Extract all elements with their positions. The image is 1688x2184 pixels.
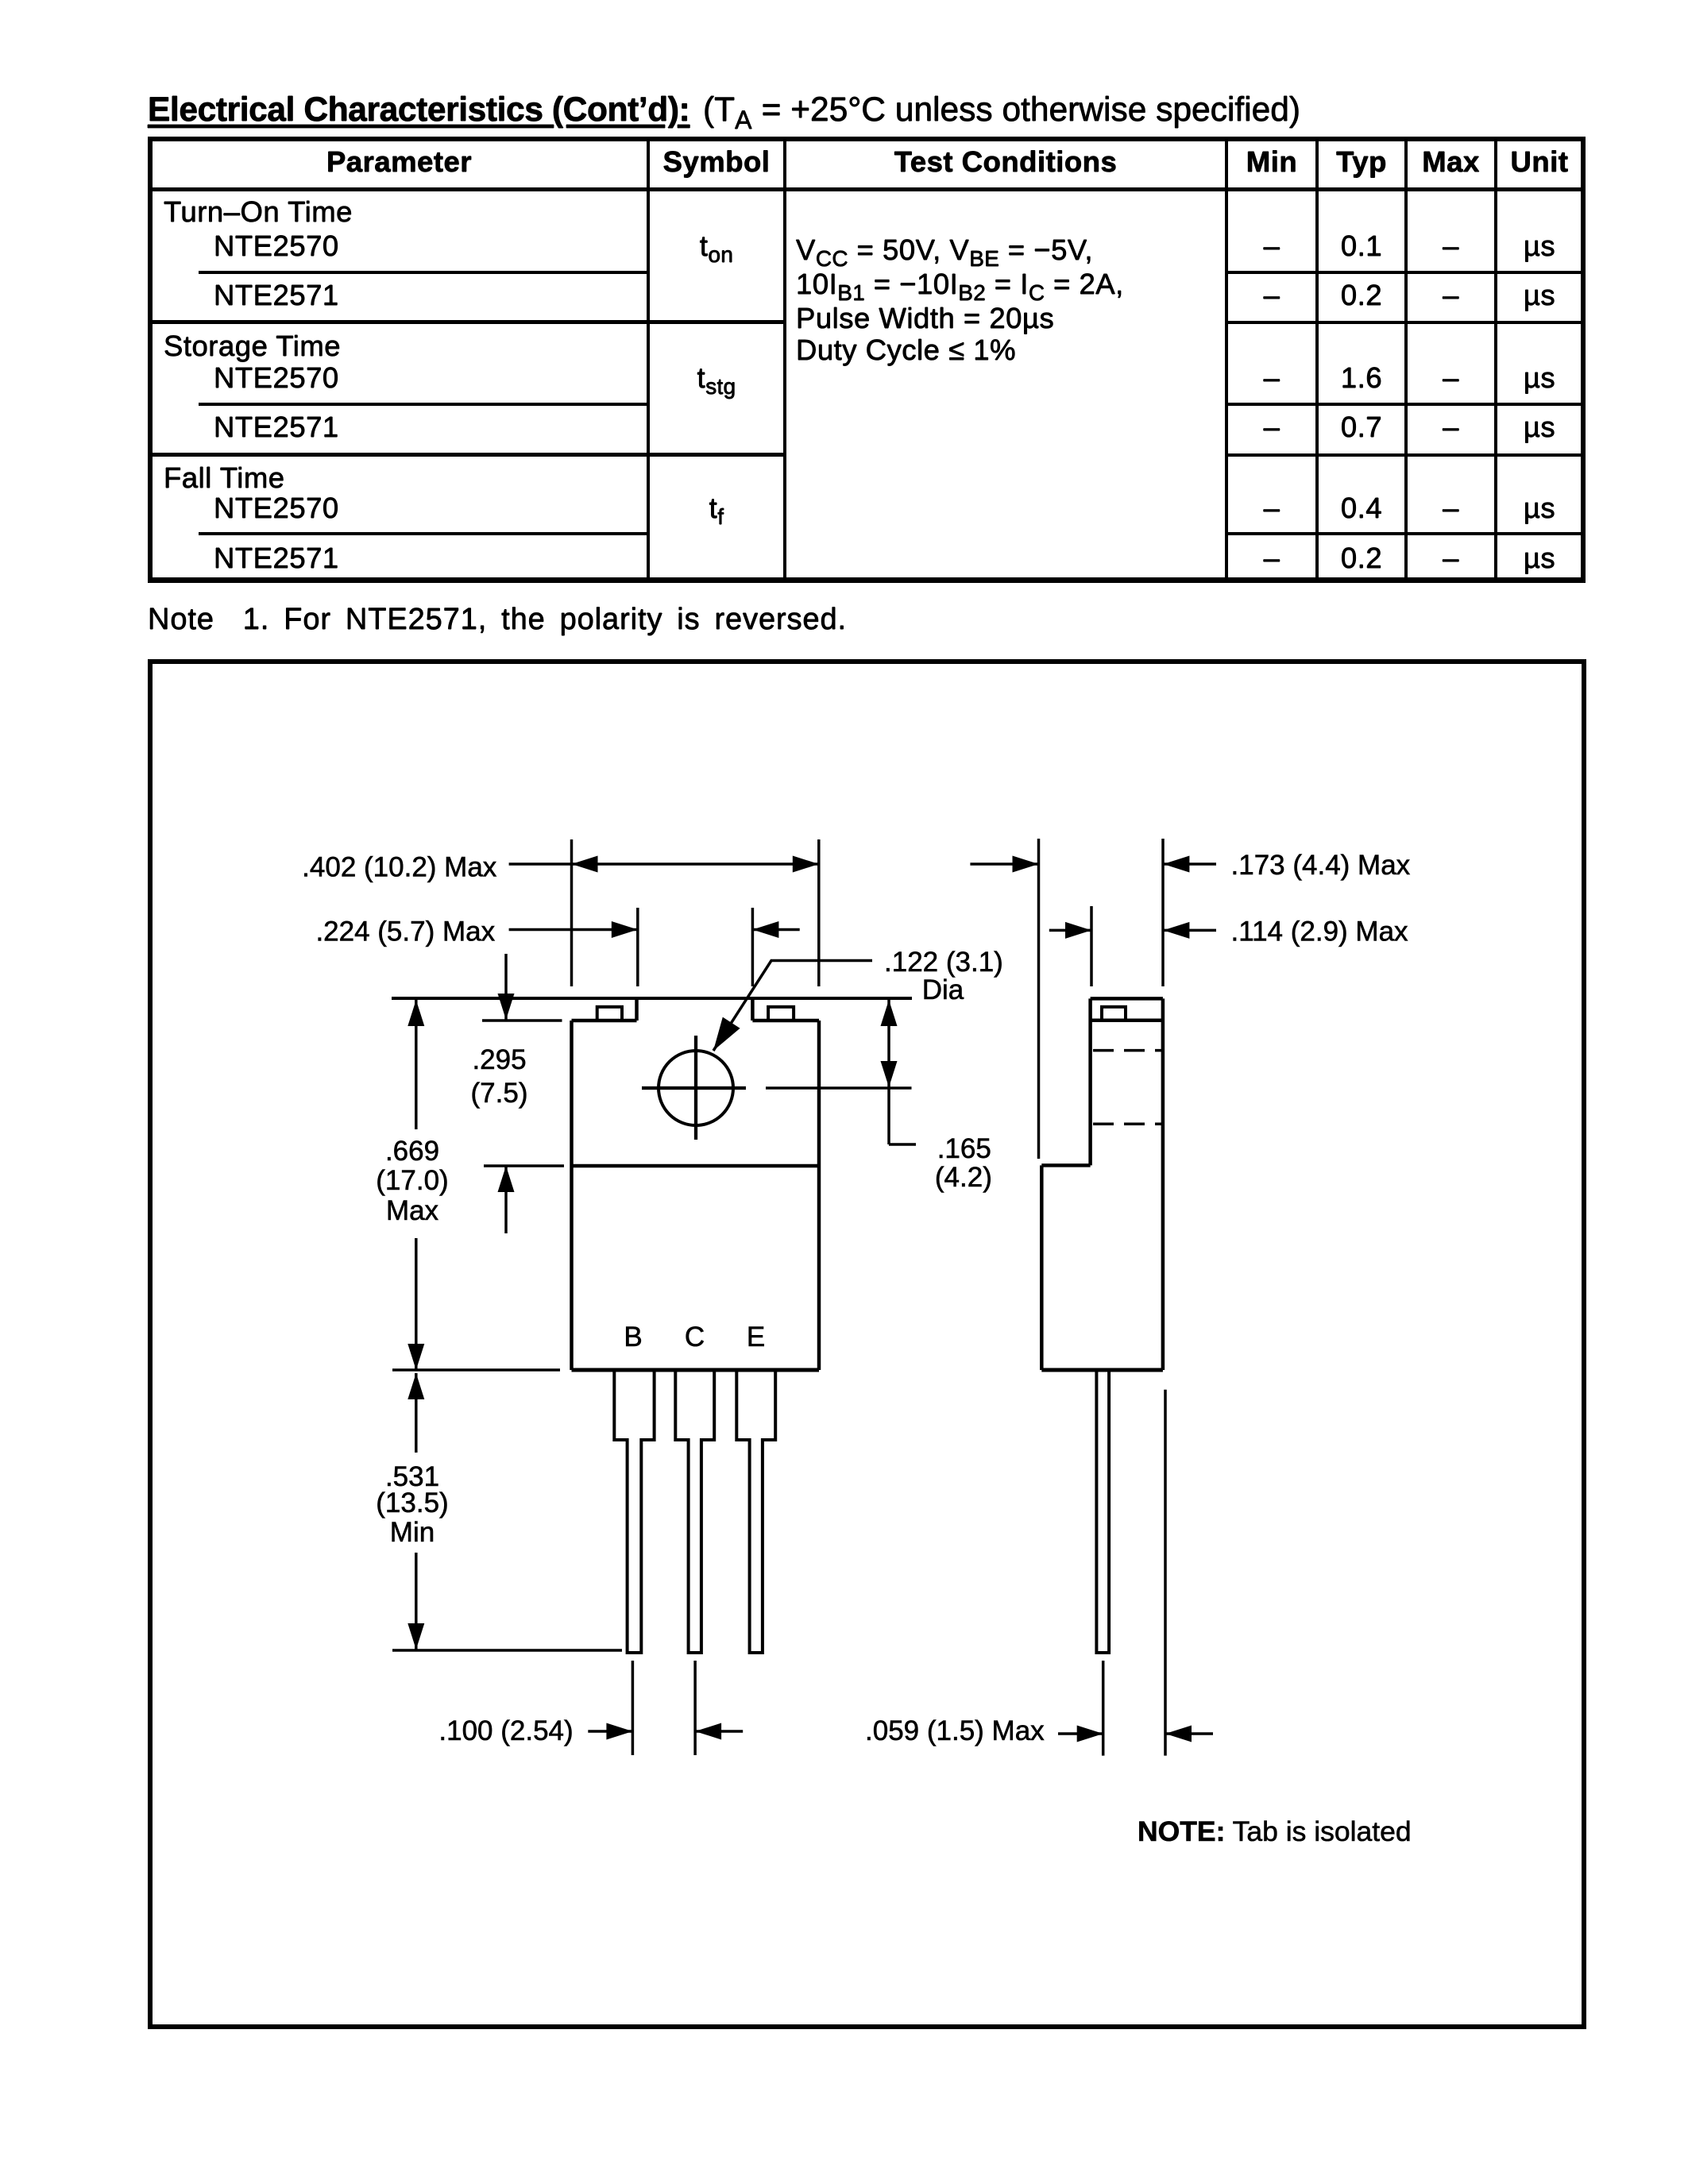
svg-text:.224 (5.7) Max: .224 (5.7) Max [315,916,495,947]
svg-text:B: B [624,1322,642,1352]
svg-text:.122 (3.1): .122 (3.1) [884,947,1003,978]
svg-text:.295: .295 [472,1044,526,1075]
svg-text:(17.0): (17.0) [376,1165,448,1196]
svg-text:E: E [747,1322,765,1352]
svg-text:(13.5): (13.5) [376,1488,448,1518]
svg-text:.165: .165 [937,1133,991,1164]
svg-text:NOTE: Tab is isolated: NOTE: Tab is isolated [1138,1815,1412,1847]
svg-text:Min: Min [390,1517,435,1548]
svg-text:C: C [685,1322,705,1352]
svg-text:.669: .669 [385,1136,439,1167]
svg-text:.114 (2.9) Max: .114 (2.9) Max [1231,916,1409,947]
svg-text:(7.5): (7.5) [471,1078,528,1109]
svg-text:Max: Max [386,1195,439,1226]
svg-text:.402 (10.2) Max: .402 (10.2) Max [302,852,497,883]
svg-text:.173 (4.4) Max: .173 (4.4) Max [1231,850,1411,881]
svg-text:(4.2): (4.2) [935,1162,992,1193]
svg-text:.059 (1.5) Max: .059 (1.5) Max [865,1715,1045,1746]
svg-text:.100 (2.54): .100 (2.54) [438,1715,573,1746]
svg-text:Dia: Dia [922,974,964,1005]
